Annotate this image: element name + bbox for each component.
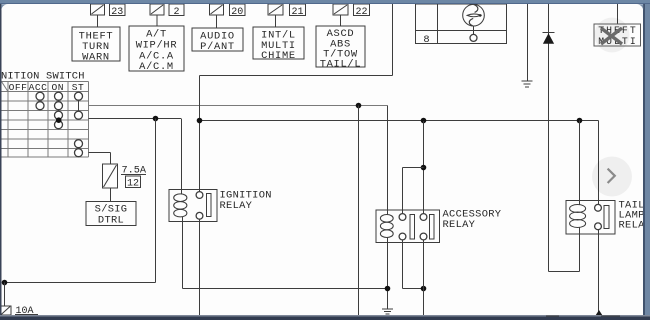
svg-text:ACC: ACC bbox=[29, 82, 48, 93]
svg-text:DTRL: DTRL bbox=[98, 214, 124, 226]
svg-text:21: 21 bbox=[291, 7, 303, 18]
svg-text:8: 8 bbox=[423, 34, 429, 46]
svg-text:23: 23 bbox=[111, 7, 123, 18]
svg-text:RELAY: RELAY bbox=[220, 200, 253, 212]
svg-text:20: 20 bbox=[231, 7, 243, 18]
svg-text:P/ANT: P/ANT bbox=[200, 41, 235, 53]
svg-text:A/C.M: A/C.M bbox=[139, 61, 174, 73]
svg-text:ST: ST bbox=[72, 82, 85, 93]
svg-text:OFF: OFF bbox=[9, 82, 28, 93]
svg-text:2: 2 bbox=[173, 7, 179, 18]
svg-text:ON: ON bbox=[52, 82, 65, 93]
svg-text:NITION SWITCH: NITION SWITCH bbox=[1, 71, 85, 83]
svg-text:CHIME: CHIME bbox=[261, 50, 296, 62]
svg-text:22: 22 bbox=[355, 7, 367, 18]
svg-text:RELAY: RELAY bbox=[443, 219, 476, 231]
svg-text:WARN: WARN bbox=[82, 51, 110, 63]
svg-text:TAIL/L: TAIL/L bbox=[320, 58, 362, 70]
svg-text:12: 12 bbox=[127, 179, 139, 190]
